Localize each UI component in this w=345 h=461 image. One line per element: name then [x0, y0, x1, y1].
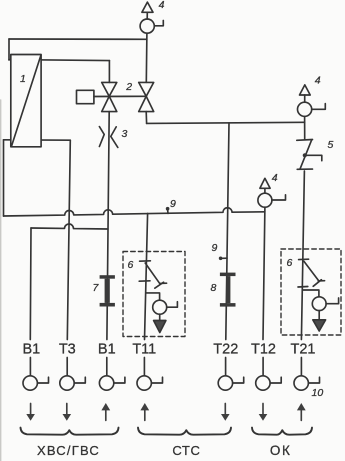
- svg-text:4: 4: [272, 172, 278, 184]
- svg-text:8: 8: [211, 282, 217, 294]
- wire B1 city riser (lower bus to port B1): [29, 228, 32, 340]
- flow arrow down (T3): [63, 404, 72, 421]
- svg-text:9: 9: [212, 242, 218, 254]
- svg-text:В1: В1: [98, 341, 116, 357]
- safety valve 5: [297, 139, 334, 169]
- wire T12 riser (air vent 4 to port T12): [263, 207, 265, 339]
- water meter with drain (right box): [303, 290, 339, 331]
- port T21: [291, 341, 324, 399]
- svg-text:Т12: Т12: [251, 341, 276, 357]
- svg-text:Т11: Т11: [132, 341, 156, 357]
- brace CTC group: [138, 428, 231, 435]
- wire valve 2b riser to top junction: [145, 33, 148, 82]
- heat exchanger 1: [11, 55, 41, 147]
- svg-text:4: 4: [315, 75, 321, 87]
- wire riser from air vent to supply header junction: [304, 117, 306, 139]
- meter unit 6 dashed box (right, on T21 riser): [281, 249, 341, 335]
- svg-text:Т3: Т3: [59, 341, 76, 357]
- svg-text:6: 6: [287, 257, 293, 269]
- flow arrow down (B1): [26, 404, 35, 421]
- actuator box of valve 2a: [77, 90, 94, 103]
- port B1 (city water inlet): [23, 341, 49, 390]
- wire upper line passing behind heat exchanger to valve 2a: [9, 60, 109, 61]
- regulator valve 6 (left): [128, 259, 167, 288]
- air vent 4 (top, on valve 2b riser): [140, 0, 165, 33]
- valve 2a (with actuator): [102, 82, 117, 111]
- wire B1 riser (valve 2a bottom to port B1): [107, 112, 109, 340]
- flow arrow up (T21): [297, 403, 306, 420]
- brace OK group: [252, 428, 312, 435]
- svg-text:6: 6: [128, 259, 134, 271]
- water meter with drain (left box): [146, 293, 177, 333]
- svg-text:Т21: Т21: [291, 341, 316, 357]
- wire T3 riser (heat exchanger to port T3): [67, 140, 70, 339]
- svg-text:5: 5: [328, 139, 334, 151]
- svg-text:СТС: СТС: [172, 443, 200, 458]
- wire T11 riser (return bus to port T11): [145, 213, 148, 339]
- wire lower line passing behind heat exchanger: [4, 139, 71, 141]
- wire upper return bus with bridges: [4, 208, 265, 216]
- svg-text:ОК: ОК: [270, 443, 292, 458]
- strainer 7 on B1 riser: [100, 275, 115, 306]
- wire lower cold-water bus with bridge: [31, 224, 108, 229]
- wire valve 2b bottom drop: [145, 112, 147, 124]
- wire supply header to the right: [147, 122, 305, 123]
- svg-text:2: 2: [125, 81, 132, 93]
- port T11: [132, 341, 162, 390]
- strainer 8 on T22 riser: [220, 273, 236, 307]
- svg-text:1: 1: [20, 73, 26, 85]
- port B1 (second): [98, 341, 125, 390]
- regulator valve 6 (right): [287, 257, 325, 287]
- svg-text:Т22: Т22: [213, 341, 238, 357]
- wire valve 2a top riser: [108, 61, 110, 83]
- port T22: [213, 341, 243, 390]
- wire actuator link through valve 2a to valve 2b: [94, 95, 146, 97]
- flow arrow up (T11): [140, 403, 149, 420]
- wire T22 riser (supply header to port T22): [226, 123, 229, 340]
- svg-text:7: 7: [93, 282, 100, 294]
- wire top horizontal from left drop to valve 2b riser: [9, 38, 147, 40]
- flow arrow down (T22): [221, 404, 230, 421]
- air vent 4 (on T12 riser): [258, 172, 286, 207]
- svg-text:В1: В1: [23, 341, 41, 357]
- brace XBC/GBC group: [21, 428, 119, 435]
- node sensor point 9 on T22 riser: [212, 242, 228, 260]
- air vent 4 (top right): [298, 75, 326, 117]
- svg-text:4: 4: [159, 0, 165, 11]
- valve 2b: [125, 81, 154, 112]
- meter unit 6 dashed box (left, on T11 riser): [123, 252, 185, 337]
- port T12: [251, 341, 281, 390]
- orifice 3 on B1 riser: [99, 127, 127, 148]
- wire left top drop: [8, 39, 10, 60]
- flow arrow down (T12): [259, 404, 268, 421]
- svg-text:3: 3: [122, 128, 128, 140]
- svg-text:ХВС/ГВС: ХВС/ГВС: [37, 443, 100, 458]
- wire T21 riser (safety valve to port T21): [301, 171, 304, 340]
- svg-text:10: 10: [312, 387, 324, 399]
- flow arrow up (B1 second): [101, 403, 110, 420]
- wire left return loop vertical: [3, 140, 5, 216]
- port T3 (hot water out): [59, 341, 85, 390]
- svg-text:9: 9: [170, 198, 176, 210]
- node sensor point 9 on return bus: [166, 198, 176, 213]
- scan edge artifact left: [0, 100, 2, 461]
